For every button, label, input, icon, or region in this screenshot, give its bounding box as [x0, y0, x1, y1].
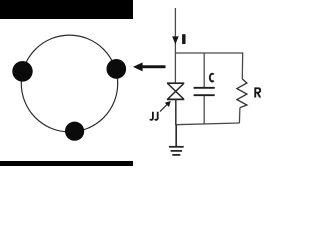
capacitor C plates: [194, 88, 215, 95]
ground symbol: [169, 147, 184, 155]
label C: [210, 74, 214, 82]
arrow pointing left at right dot: [133, 62, 166, 71]
wire: resistor branch bottom lead: [238, 108, 241, 124]
resistor R zigzag: [237, 79, 247, 108]
loop circle: [21, 35, 117, 132]
label JJ with pointer arrow: [150, 101, 171, 120]
wire: ground lead: [175, 125, 177, 147]
current direction arrowhead: [172, 36, 179, 44]
junction dot right: [107, 59, 127, 79]
junction dot left: [12, 61, 32, 82]
label I: [182, 34, 185, 44]
wire: top rail: [175, 52, 242, 54]
wire: resistor branch top lead: [241, 52, 243, 79]
junction dot bottom: [65, 122, 84, 141]
wire: current source lead (top vertical): [174, 8, 176, 83]
wire: JJ to bottom rail: [175, 99, 177, 125]
top border bar: [0, 0, 133, 19]
wire: bottom rail: [176, 123, 239, 125]
bottom border bar: [0, 161, 133, 166]
Josephson junction JJ (hourglass symbol): [167, 83, 184, 99]
wire: capacitor branch top: [203, 53, 205, 87]
wire: capacitor branch bottom: [203, 96, 205, 124]
label R: [254, 87, 261, 97]
